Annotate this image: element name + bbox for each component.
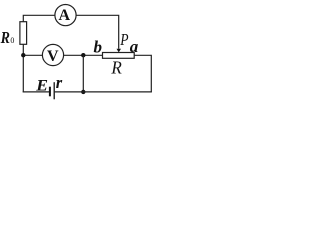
wire voltmeter-left (left vertical to voltmeter) [23,54,43,56]
svg-text:R: R [110,57,122,78]
wire bottom rail left (corner to battery) [23,91,49,93]
wire top-right horizontal (ammeter to slider bend) [76,15,119,49]
ammeter U-A [55,5,76,26]
svg-text:A: A [59,7,71,24]
svg-text:R: R [0,29,10,48]
svg-text:b: b [94,37,103,56]
svg-text:V: V [47,48,59,65]
wire branch vertical (b-branch down to bottom rail) [82,55,84,92]
voltmeter U-V [42,44,63,65]
rheostat slider arrow P [117,49,122,53]
wire bottom rail right (battery to bottom-right corner) [55,91,152,93]
svg-text:E: E [35,76,48,94]
wire voltmeter-right (voltmeter to rheostat terminal b) [64,54,103,56]
node junction b-branch bottom [81,90,85,94]
svg-text:a: a [130,37,139,56]
svg-text:r: r [56,73,63,92]
wire top-left horizontal (left corner to ammeter) [23,15,55,21]
battery E,r [50,82,54,99]
wire rheostat-right to right vertical [134,55,151,92]
node junction b-branch top [81,53,85,57]
node junction on left vertical [21,53,25,57]
resistor R0 [20,22,27,45]
svg-text:0: 0 [10,36,14,45]
wire left vertical (resistor bottom to bottom-left corner) [22,44,24,92]
rheostat R body [103,53,135,59]
svg-text:P: P [119,31,128,50]
